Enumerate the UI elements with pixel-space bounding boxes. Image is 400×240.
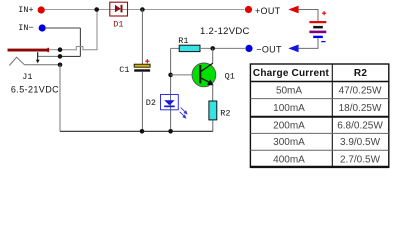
jack J1 center pin bar	[8, 48, 50, 52]
wire jack pin to node	[49, 49, 60, 51]
wire battery to -OUT	[299, 38, 318, 48]
jack J1 sleeve lever	[9, 57, 60, 65]
svg-text:Charge Current: Charge Current	[253, 68, 330, 79]
svg-text:3.9/0.5W: 3.9/0.5W	[340, 137, 381, 148]
wire R1 left	[171, 47, 180, 49]
svg-text:IN−: IN−	[18, 23, 33, 33]
wire emitter	[212, 85, 214, 101]
node IN+ terminal dot	[38, 6, 45, 13]
node base junction	[168, 73, 173, 78]
wire base to Q1	[171, 74, 192, 76]
node jack pin junction	[58, 47, 63, 52]
node collector junction	[210, 46, 215, 51]
node top rail junction A	[94, 7, 99, 12]
LED D2	[161, 95, 188, 119]
svg-text:D1: D1	[113, 20, 123, 30]
svg-text:R1: R1	[178, 36, 188, 46]
wire jack node to top rail with hop over IN- wire	[60, 10, 97, 50]
node -OUT dot	[245, 45, 252, 52]
svg-text:1.2-12VDC: 1.2-12VDC	[200, 26, 250, 37]
jack J1 switch wire from node	[38, 52, 60, 56]
node IN- terminal dot	[39, 24, 46, 31]
svg-text:400mA: 400mA	[273, 154, 305, 165]
svg-text:6.8/0.25W: 6.8/0.25W	[337, 121, 383, 132]
svg-text:C1: C1	[119, 65, 129, 75]
svg-text:+OUT: +OUT	[255, 6, 281, 16]
svg-text:200mA: 200mA	[273, 121, 305, 132]
svg-text:47/0.25W: 47/0.25W	[339, 85, 382, 96]
svg-text:J1: J1	[22, 72, 32, 82]
wire top positive rail	[45, 9, 245, 11]
diode D1	[110, 2, 128, 16]
wire IN- horizontal	[46, 27, 81, 29]
node +OUT dot	[245, 6, 252, 13]
wire IN- vertical down	[79, 28, 81, 56]
jack J1 plug arrow	[36, 53, 40, 64]
wire R1 right to -OUT	[200, 47, 245, 49]
node ground rail C1 junction	[140, 129, 145, 134]
resistor R2	[209, 101, 217, 120]
svg-text:18/0.25W: 18/0.25W	[339, 103, 382, 114]
svg-text:100mA: 100mA	[273, 103, 305, 114]
wire base column	[170, 48, 172, 131]
wire ground rail	[60, 130, 213, 132]
wire C1 column top	[141, 10, 143, 65]
wire IN- to jack switch node	[60, 55, 80, 57]
wire collector	[212, 48, 214, 64]
wire +OUT to battery	[299, 10, 318, 22]
node ground rail D2 junction	[168, 129, 173, 134]
svg-text:D2: D2	[146, 98, 156, 108]
svg-text:300mA: 300mA	[273, 137, 305, 148]
svg-text:2.7/0.5W: 2.7/0.5W	[340, 154, 381, 165]
wire R2 bottom	[212, 120, 214, 132]
arrow -OUT	[288, 45, 298, 53]
svg-text:R2: R2	[354, 68, 367, 79]
table R2 selection	[250, 64, 388, 167]
node jack sleeve junction	[58, 63, 63, 68]
capacitor C1	[134, 59, 150, 72]
svg-text:Q1: Q1	[225, 72, 235, 82]
node jack switch junction	[58, 54, 63, 59]
wire ground feed from jack	[59, 65, 61, 132]
wire C1 column bottom	[141, 72, 143, 132]
battery BT1	[309, 11, 326, 41]
arrow +OUT	[288, 6, 298, 14]
resistor R1	[179, 45, 200, 51]
node top rail junction B	[140, 7, 145, 12]
svg-text:6.5-21VDC: 6.5-21VDC	[11, 84, 59, 94]
transistor Q1	[192, 63, 216, 87]
svg-text:50mA: 50mA	[276, 85, 302, 96]
svg-text:−OUT: −OUT	[256, 45, 282, 55]
svg-text:IN+: IN+	[18, 5, 33, 15]
svg-text:R2: R2	[220, 108, 230, 118]
